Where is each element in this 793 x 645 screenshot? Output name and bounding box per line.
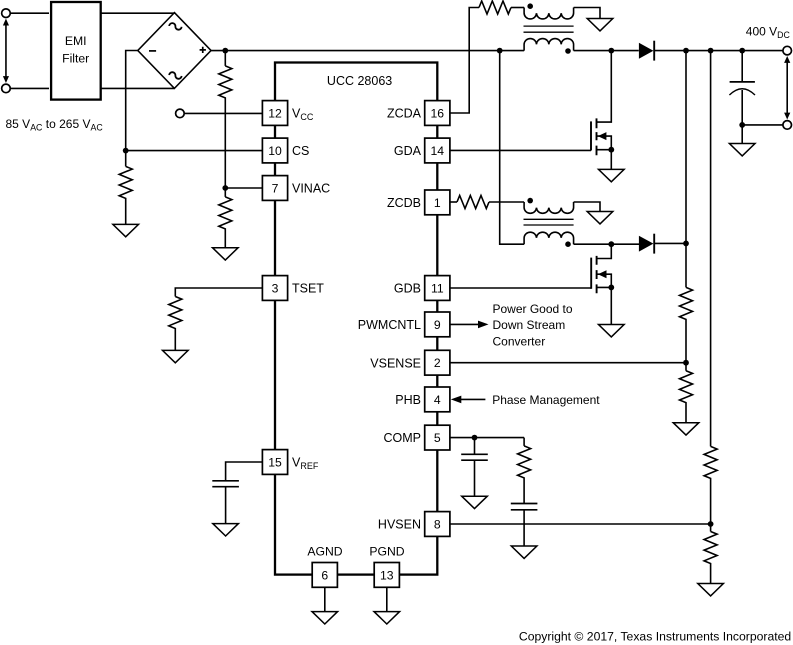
svg-text:5: 5 [434, 431, 441, 445]
svg-text:GDA: GDA [394, 144, 422, 158]
wire ZCDA resistor to winding [511, 7, 524, 9]
svg-text:GDB: GDB [394, 282, 421, 296]
wire C1 to ground [474, 460, 476, 496]
wire ZCDB resistor to winding [489, 201, 524, 203]
svg-text:1: 1 [434, 196, 441, 210]
wire rail B to diode B [574, 243, 639, 245]
wire output cap to node [741, 90, 743, 125]
pin 16 box [425, 101, 450, 126]
svg-text:3: 3 [272, 282, 279, 296]
svg-text:TSET: TSET [292, 282, 324, 296]
node rail-output cap [739, 48, 745, 54]
resistor COMP series [518, 438, 531, 504]
diode D2 [639, 234, 654, 254]
svg-text:AGND: AGND [307, 544, 342, 558]
ground AGND [312, 612, 338, 624]
wire bridge plus to rail [211, 50, 524, 52]
svg-text:10: 10 [268, 144, 282, 158]
resistor ZCDB [457, 196, 489, 209]
ground HVSEN divider [698, 584, 724, 596]
resistor ZCDA [479, 1, 511, 14]
svg-text:Filter: Filter [62, 52, 89, 66]
arrow PHB input [451, 396, 486, 404]
wire diode B to VSENSE chain [654, 242, 686, 244]
wire pin 15 to VREF cap [226, 462, 263, 481]
wire rail to VSENSE divider [685, 51, 687, 288]
wire COMP RC to ground [523, 510, 525, 546]
output voltage double arrow [784, 56, 790, 120]
ground Q2 source [599, 325, 625, 337]
wire COMP node to cap C1 [474, 438, 476, 455]
wire pin 16 to ZCDA resistor [450, 8, 479, 114]
node drain A [608, 48, 614, 54]
resistor VINAC upper [219, 51, 232, 188]
ground output cap [729, 144, 755, 156]
svg-text:Power Good to: Power Good to [493, 302, 573, 316]
input voltage double arrow [3, 19, 9, 83]
svg-text:UCC 28063: UCC 28063 [327, 74, 392, 88]
svg-text:PWMCNTL: PWMCNTL [358, 318, 421, 332]
resistor HVSEN lower [704, 524, 717, 584]
node bridge plus [222, 48, 228, 54]
transistor Q1 (GDA MOSFET) [450, 51, 614, 170]
pin 11 box [425, 276, 450, 301]
wire rail to output cap [741, 51, 743, 82]
ground Q1 source [599, 169, 625, 181]
wire cap node to bottom terminal [742, 124, 783, 126]
wire T1 ZCD to ground [574, 8, 600, 19]
ground VSENSE divider [673, 423, 699, 435]
svg-text:EMI: EMI [65, 34, 87, 48]
node drain B [608, 241, 614, 247]
node CS junction [123, 148, 129, 154]
pin 10 box [262, 138, 287, 163]
ground COMP C1 [462, 496, 488, 508]
svg-text:12: 12 [268, 107, 282, 121]
node rail-HVSEN chain [708, 48, 714, 54]
ground COMP RC [511, 546, 537, 558]
ground T1 ZCD return [587, 19, 613, 31]
svg-text:4: 4 [434, 393, 441, 407]
wire VREF cap to ground [225, 487, 227, 524]
pin 15 box [262, 450, 287, 475]
node VSENSE tap [683, 360, 689, 366]
ground T2 ZCD return [587, 212, 613, 224]
svg-text:13: 13 [380, 568, 394, 582]
node VINAC [222, 185, 228, 191]
bridge rectifier BR1 [138, 13, 211, 89]
pin 6 box [312, 563, 337, 588]
pin 13 box [374, 563, 399, 588]
svg-text:16: 16 [431, 107, 445, 121]
svg-text:9: 9 [434, 318, 441, 332]
wire output rail [653, 50, 783, 52]
svg-text:COMP: COMP [384, 431, 422, 445]
node phase B branch [497, 48, 503, 54]
input terminal bottom [2, 84, 11, 93]
wire pin 8 to HVSEN tap [450, 523, 711, 525]
pin 2 box [425, 350, 450, 375]
svg-text:HVSEN: HVSEN [378, 518, 421, 532]
EMI filter label [62, 34, 89, 65]
svg-text:14: 14 [431, 144, 445, 158]
svg-text:PHB: PHB [395, 393, 421, 407]
transformer T2 ZCD winding [524, 202, 573, 213]
capacitor VREF [212, 481, 239, 487]
ground TSET [163, 350, 189, 362]
svg-text:CS: CS [292, 144, 309, 158]
T2 ZCD polarity dot [527, 198, 533, 204]
pin 4 box [425, 387, 450, 412]
resistor VSENSE lower [680, 363, 693, 423]
svg-text:8: 8 [434, 518, 441, 532]
output terminal bottom [783, 121, 792, 130]
pin 3 box [262, 276, 287, 301]
wire EMI to bridge top [101, 12, 175, 14]
svg-text:7: 7 [272, 182, 279, 196]
resistor VSENSE upper [680, 287, 693, 362]
T2 main polarity dot [565, 241, 571, 247]
wire cap node to ground [741, 125, 743, 144]
resistor CS shunt [119, 151, 132, 225]
ground CS shunt [113, 224, 139, 236]
wire AGND to ground [324, 587, 326, 611]
wire pin 3 to TSET resistor [175, 288, 262, 297]
wire CS node to pin 10 [126, 150, 263, 152]
ground PGND [374, 612, 400, 624]
svg-text:Converter: Converter [493, 334, 546, 348]
resistor VINAC lower [219, 188, 232, 248]
svg-text:ZCDB: ZCDB [387, 196, 421, 210]
pin 8 box [425, 512, 450, 537]
node HVSEN tap [708, 521, 714, 527]
wire PGND to ground [386, 587, 388, 611]
svg-text:15: 15 [268, 456, 282, 470]
svg-text:VINAC: VINAC [292, 182, 330, 196]
input terminal top [2, 9, 11, 18]
svg-text:85 VAC to 265 VAC: 85 VAC to 265 VAC [6, 117, 104, 133]
label Power Good to Down Stream Converter [493, 302, 573, 348]
wire rail to diode A [574, 50, 639, 52]
transistor Q2 (GDB MOSFET) [450, 244, 614, 324]
wire input top to EMI [10, 12, 49, 14]
pin 5 box [425, 425, 450, 450]
svg-text:11: 11 [431, 282, 444, 296]
wire phase B drop [500, 51, 524, 245]
wire T2 ZCD to ground [574, 202, 600, 212]
pin 1 box [425, 190, 450, 215]
node output cap bottom [739, 122, 745, 128]
wire EMI to bridge bottom [101, 87, 175, 89]
transformer T2 core [524, 219, 574, 225]
wire VINAC node to pin 7 [225, 187, 262, 189]
output terminal top [783, 46, 792, 55]
wire pin 5 COMP [450, 437, 524, 439]
node diode B output [683, 241, 689, 247]
transformer T2 main winding (boost inductor B) [524, 232, 573, 244]
terminal VCC supply [176, 109, 185, 118]
svg-text:6: 6 [321, 568, 328, 582]
wire input bottom to EMI [10, 87, 49, 89]
svg-text:2: 2 [434, 356, 441, 370]
svg-text:VSENSE: VSENSE [370, 356, 421, 370]
resistor HVSEN upper [704, 446, 717, 524]
pin 9 box [425, 312, 450, 337]
ground VINAC divider [213, 248, 239, 260]
transformer T1 main winding (boost inductor A) [524, 39, 573, 51]
pin 14 box [425, 138, 450, 163]
transformer T1 core [524, 26, 574, 32]
svg-text:Down Stream: Down Stream [493, 318, 566, 332]
capacitor output (polarized) [729, 82, 755, 95]
T1 main polarity dot [565, 48, 571, 54]
svg-text:ZCDA: ZCDA [387, 107, 422, 121]
IC UCC28063 outline [275, 63, 437, 575]
T1 ZCD polarity dot [527, 3, 533, 9]
svg-text:Copyright © 2017, Texas Instru: Copyright © 2017, Texas Instruments Inco… [519, 629, 791, 643]
capacitor COMP C1 [461, 454, 488, 460]
ground VREF cap [213, 524, 239, 536]
EMI filter box [51, 2, 101, 100]
transformer T1 ZCD winding [524, 8, 573, 19]
pin 12 box [262, 101, 287, 126]
diode D1 [639, 41, 654, 61]
wire rail to HVSEN resistor [710, 51, 712, 447]
node COMP [472, 435, 478, 441]
resistor TSET [169, 297, 182, 351]
svg-text:Phase Management: Phase Management [492, 393, 600, 407]
svg-text:PGND: PGND [369, 544, 404, 558]
wire pin 2 to VSENSE tap [450, 362, 686, 364]
wire bridge minus to CS node [126, 51, 138, 151]
wire VCC terminal to pin 12 [184, 112, 262, 114]
arrow PWMCNTL output [451, 321, 489, 329]
wire pin 1 to ZCDB resistor [450, 201, 457, 203]
pin 7 box [262, 176, 287, 201]
capacitor COMP series [511, 504, 538, 510]
node rail-VSENSE chain [683, 48, 689, 54]
